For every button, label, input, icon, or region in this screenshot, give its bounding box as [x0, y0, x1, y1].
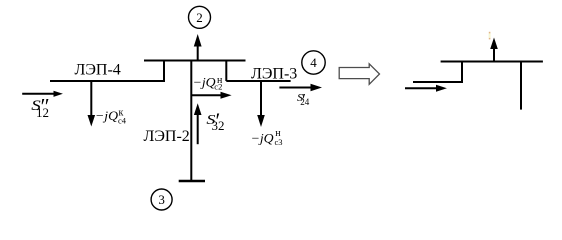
svg-text:−jQ: −jQ	[193, 75, 217, 90]
svg-text:с3: с3	[275, 137, 283, 147]
svg-text:с4: с4	[118, 116, 127, 126]
svg-text:12: 12	[36, 105, 49, 120]
svg-text:4: 4	[310, 55, 317, 70]
svg-text:3: 3	[158, 192, 165, 207]
svg-text:ЛЭП-4: ЛЭП-4	[75, 62, 121, 79]
svg-text:2: 2	[196, 10, 203, 25]
svg-text:с2: с2	[214, 82, 222, 92]
svg-text:ЛЭП-3: ЛЭП-3	[251, 65, 297, 82]
svg-text:−jQ: −jQ	[95, 108, 119, 123]
svg-text:32: 32	[212, 118, 225, 133]
svg-text:ЛЭП-2: ЛЭП-2	[144, 128, 190, 145]
svg-text:24: 24	[300, 97, 310, 107]
svg-text:−jQ: −jQ	[251, 130, 275, 145]
